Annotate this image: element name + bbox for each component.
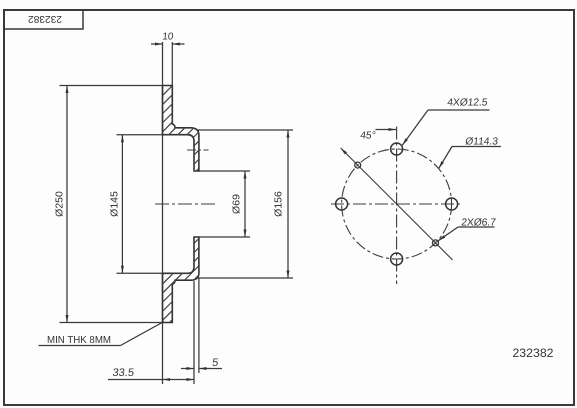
dimension 5 lines and arrows	[181, 368, 194, 370]
label 4XD12.5 leader	[402, 110, 428, 145]
svg-text:4XØ12.5: 4XØ12.5	[447, 98, 489, 109]
bolt hole D12.5 left	[336, 198, 348, 210]
bolt hole D12.5 right	[446, 198, 458, 210]
svg-text:Ø156: Ø156	[272, 191, 284, 217]
front view vertical centerline	[396, 127, 398, 285]
note leader to disc corner	[121, 322, 165, 346]
dimension 10 extension lines	[162, 42, 164, 86]
front view horizontal centerline	[331, 203, 461, 205]
bolt hole centerline tick in section	[187, 149, 209, 151]
svg-text:10: 10	[162, 32, 175, 43]
svg-text:Ø145: Ø145	[109, 191, 121, 217]
dimension D156 extension lines	[197, 129, 293, 131]
title box top-left	[4, 10, 83, 29]
svg-text:45°: 45°	[360, 131, 377, 142]
dimension 33.5 line and arrows	[108, 379, 194, 381]
label D114.3 leader	[439, 147, 452, 169]
svg-text:Ø250: Ø250	[53, 191, 65, 217]
svg-text:Ø69: Ø69	[230, 194, 242, 214]
45 degree diagonal centerline	[341, 148, 453, 260]
33.5 dimension extension line / disc outboard face (full height)	[162, 86, 164, 385]
45 deg arrow to vertical centerline	[376, 129, 397, 131]
arrow at diagonal end (angular dim)	[341, 148, 347, 154]
disc section outer ring (bottom half) outline	[163, 237, 199, 323]
bolt hole D12.5 bottom	[391, 253, 403, 265]
disc section outer ring (top half) outline	[163, 86, 199, 172]
svg-text:5: 5	[212, 357, 219, 369]
note underline	[39, 345, 121, 347]
svg-text:232382: 232382	[512, 346, 553, 360]
small hole D6.7 lower-right	[433, 240, 439, 246]
label 4XD12.5 underline	[428, 109, 490, 111]
bolt hole D12.5 top	[391, 143, 403, 155]
dimension D156 line and arrows	[287, 130, 289, 278]
hatching top half	[60, 65, 339, 180]
dimension D145 extension lines	[117, 134, 163, 136]
small hole D6.7 upper-left	[355, 162, 361, 168]
svg-text:MIN THK 8MM: MIN THK 8MM	[47, 335, 111, 346]
dimension 5 extension line right	[198, 278, 200, 373]
dimension D250 extension lines	[60, 85, 163, 87]
dimension D145 line and arrows	[121, 135, 123, 274]
dimension D69 line and arrows	[244, 171, 246, 237]
hatching bottom half	[61, 225, 340, 340]
bolt circle D114.3 (dash-dot)	[342, 149, 452, 259]
label 2XD6.7 leader	[438, 227, 458, 241]
svg-text:232382: 232382	[28, 13, 62, 24]
section axis centerline	[155, 203, 216, 205]
svg-text:Ø114.3: Ø114.3	[465, 137, 499, 148]
dimension D69 extension lines	[199, 170, 250, 172]
dimension 33.5/5 extension line mid	[193, 281, 195, 384]
dimension D250 line and arrows	[66, 86, 68, 323]
svg-text:33.5: 33.5	[112, 367, 135, 379]
label D114.3 underline	[452, 146, 501, 148]
label 2XD6.7 underline	[458, 226, 495, 228]
dimension 10 lines and arrows	[151, 43, 163, 45]
